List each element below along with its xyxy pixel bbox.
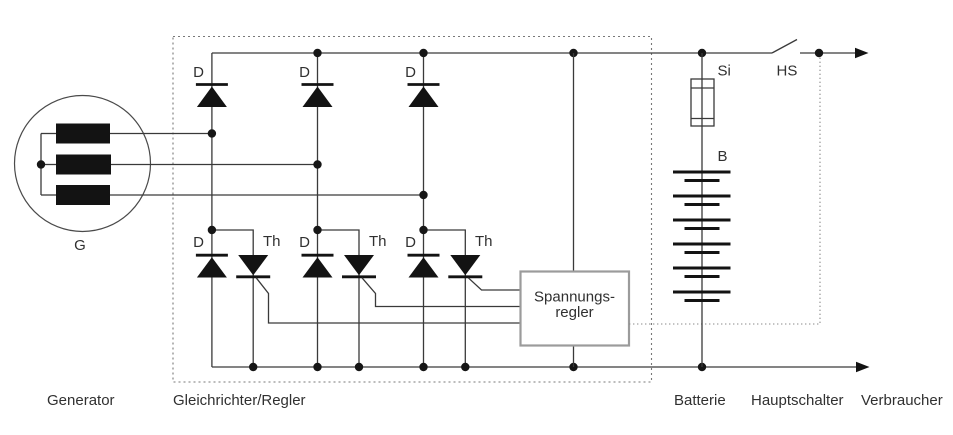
wire rectifier column D3 [423,53,425,367]
wire bottom bus B- [212,366,856,368]
wire phase V to rectifier [100,164,318,166]
svg-text:Generator: Generator [47,392,115,409]
svg-text:D: D [193,64,204,81]
node top bus consumer [815,49,823,57]
diode D6 bottom [408,255,440,277]
node top bus battery [698,49,706,57]
winding L1 [56,124,110,144]
svg-text:B: B [718,148,728,165]
diode D2 top [302,85,334,108]
node top bus regulator feed [569,49,577,57]
wire Th2 branch [318,230,360,367]
wire Th3 gate [468,278,520,290]
node bottom bus battery [698,363,706,371]
wire sense line dotted [629,57,820,324]
switch HS blade [772,40,797,54]
wire top bus after switch [800,52,855,54]
label D4 [193,234,204,251]
svg-text:HS: HS [777,63,798,80]
label D1 [193,64,204,81]
node phase U tap [208,129,216,137]
label Verbraucher [861,392,943,409]
generator housing circle [15,96,151,232]
svg-text:D: D [299,234,310,251]
arrow bottom consumers [856,362,870,372]
arrow top consumers [855,48,869,58]
label Th3 [475,233,493,250]
label D3 [405,64,416,81]
node top bus D3 [419,49,427,57]
wire regulator ground [573,346,575,368]
diode D1 top [196,85,228,108]
svg-text:D: D [405,64,416,81]
label Th2 [369,233,387,250]
wire phase U to rectifier [100,133,212,135]
svg-text:G: G [74,237,86,254]
label Th1 [263,233,281,250]
node bottom bus D2 [313,363,321,371]
wire Th2 gate [362,278,521,307]
battery B plates [673,172,731,301]
regulator box U1 [521,272,630,346]
node bottom bus Th1 [249,363,257,371]
diode D5 bottom [302,255,334,277]
label D6 [405,234,416,251]
svg-text:Si: Si [718,63,731,80]
wire star-point left vertical [40,134,42,196]
label D2 [299,64,310,81]
label HS [777,63,798,80]
svg-text:regler: regler [555,304,593,321]
node bottom bus D3 [419,363,427,371]
fuse Si [691,79,714,126]
node bottom bus regulator [569,363,577,371]
node star-point junction [37,160,45,168]
diode D4 bottom [196,255,228,277]
thyristor Th2 [342,255,376,277]
thyristor Th3 [448,255,482,277]
dashed boundary Gleichrichter/Regler [173,37,652,383]
node bottom bus Th3 [461,363,469,371]
wire regulator top feed [573,53,575,272]
label Gleichrichter/Regler [173,392,306,409]
winding L3 [56,185,110,205]
label Spannungsregler [534,289,615,322]
wire Th1 gate [256,278,520,323]
svg-text:Verbraucher: Verbraucher [861,392,943,409]
svg-text:Gleichrichter/Regler: Gleichrichter/Regler [173,392,306,409]
wire Th1 branch [212,230,253,367]
label Si [718,63,731,80]
node bottom bus Th2 [355,363,363,371]
winding L2 [56,155,111,175]
svg-text:Th: Th [263,233,281,250]
label Generator [47,392,115,409]
wire rectifier column D1 [211,53,213,367]
thyristor Th1 [236,255,270,277]
wire battery branch [701,53,703,367]
node phase W tap [419,191,427,199]
wire winding1 left lead [41,133,56,135]
svg-text:Spannungs-: Spannungs- [534,289,615,306]
node D2 lower junction [313,226,321,234]
svg-text:Th: Th [475,233,493,250]
label B [718,148,728,165]
node D3 lower junction [419,226,427,234]
label Hauptschalter [751,392,844,409]
wire winding2 left lead [41,164,56,166]
node phase V tap [313,160,321,168]
wire Th3 branch [424,230,466,367]
svg-text:Th: Th [369,233,387,250]
svg-text:D: D [405,234,416,251]
node D1 lower junction [208,226,216,234]
wire phase W to rectifier [100,194,424,196]
label D5 [299,234,310,251]
svg-text:D: D [299,64,310,81]
node top bus D2 [313,49,321,57]
svg-text:Hauptschalter: Hauptschalter [751,392,844,409]
svg-text:D: D [193,234,204,251]
label G [74,237,86,254]
diode D3 top [408,85,440,108]
wire winding3 left lead [41,194,56,196]
svg-text:Batterie: Batterie [674,392,726,409]
wire top bus B+ [212,52,772,54]
wire rectifier column D2 [317,53,319,367]
label Batterie [674,392,726,409]
